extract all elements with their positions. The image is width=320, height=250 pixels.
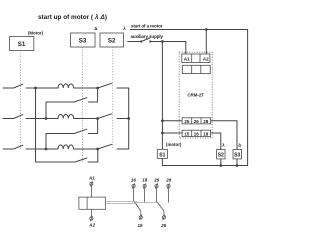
- wire L2 to star bus: [117, 118, 129, 120]
- wire S2 bottom stub: [220, 159, 222, 166]
- wire to terminal 15 row: [162, 132, 182, 134]
- node L1 input junction: [34, 87, 37, 90]
- wire A1 to coil: [90, 185, 92, 197]
- svg-text:15: 15: [137, 223, 143, 228]
- node L3 winding end: [96, 148, 99, 151]
- wire common 25: [163, 211, 165, 216]
- node star bus L2 junction: [127, 117, 130, 120]
- svg-text:28: 28: [203, 119, 209, 124]
- svg-text:25: 25: [184, 119, 190, 124]
- wire S3 bottom stub: [236, 159, 238, 166]
- wire L3 to coil: [26, 148, 58, 150]
- wire L2 to coil: [26, 118, 58, 120]
- svg-text:start of a motor: start of a motor: [131, 24, 163, 29]
- contactor box S2: [100, 33, 124, 47]
- switch blade S1 pole3: [14, 145, 23, 149]
- terminal 18: [143, 183, 146, 188]
- wire L1 to coil: [26, 87, 58, 89]
- motor winding coil 1: [58, 84, 74, 88]
- dashed linkage S1: [20, 51, 22, 150]
- svg-text:28: 28: [165, 178, 172, 183]
- svg-text:Δ: Δ: [94, 26, 97, 31]
- terminal 15: [139, 215, 142, 220]
- wire auxiliary supply line: [128, 41, 142, 43]
- svg-text:A1: A1: [88, 176, 95, 181]
- node S2 bus junction: [219, 164, 222, 167]
- svg-text:Δ: Δ: [238, 143, 241, 148]
- svg-text:18: 18: [203, 132, 209, 137]
- wire L3 to star bus: [117, 148, 129, 150]
- switch blade delta pole3: [75, 158, 87, 162]
- relay module CRM-2T dashed outline: [179, 52, 212, 138]
- node L2 bridge1 junction: [45, 117, 48, 120]
- svg-text:16: 16: [194, 132, 200, 137]
- svg-text:A2: A2: [203, 56, 209, 61]
- wire star bus: [128, 88, 130, 149]
- wire common 15: [140, 211, 142, 216]
- terminal 28: [167, 183, 170, 188]
- wire A2 drop: [205, 30, 207, 55]
- terminal 26: [155, 183, 158, 188]
- svg-text:A2: A2: [88, 223, 95, 228]
- motor winding coil 2: [58, 114, 74, 118]
- contactor box S1: [10, 37, 34, 51]
- svg-text:λ: λ: [222, 143, 225, 148]
- svg-text:A1: A1: [184, 56, 190, 61]
- mechanical linkage double line: [106, 202, 159, 204]
- wire bridge2 down to L3: [45, 134, 47, 150]
- svg-text:CRM-2T: CRM-2T: [187, 93, 204, 98]
- node L2 winding end: [96, 117, 99, 120]
- wire start-of-motor line: [130, 30, 247, 166]
- switch blade lambda pole2: [98, 114, 112, 119]
- node L3 bridge2 junction: [45, 148, 48, 151]
- svg-text:26: 26: [194, 119, 200, 124]
- svg-text:16: 16: [131, 178, 137, 183]
- node aux switch left contact: [140, 40, 142, 42]
- terminal A2: [90, 216, 93, 221]
- svg-text:(Motor): (Motor): [28, 31, 44, 36]
- wire L3 coil to node: [75, 148, 98, 150]
- wire from 28 down: [168, 188, 170, 203]
- switch blade S1 pole1: [14, 84, 23, 88]
- node A2 junction: [205, 28, 208, 31]
- wire bottom bus: [162, 158, 247, 165]
- wire bridge1 horizontal: [46, 101, 74, 103]
- wire bridge1 down to L2: [45, 102, 47, 119]
- motor winding coil 3: [58, 145, 74, 149]
- node aux switch right contact: [149, 40, 151, 42]
- switch blade S1 pole2: [14, 115, 23, 119]
- node aux junction: [161, 40, 164, 43]
- terminal A1: [90, 181, 93, 186]
- switch blade aux supply: [141, 38, 150, 42]
- wire L2 coil to node: [75, 118, 98, 120]
- node S3 bus junction: [236, 164, 239, 167]
- relay coil box: [79, 197, 106, 209]
- terminal row empty: [182, 65, 210, 73]
- contactor box S1 lower: [157, 149, 167, 158]
- terminal 25: [162, 215, 165, 220]
- svg-text:S3: S3: [234, 152, 240, 158]
- wire bridge3 to L3 node: [88, 149, 98, 162]
- wire phase L1 in: [3, 87, 14, 89]
- svg-text:S1: S1: [18, 41, 26, 48]
- terminal row 15 16 18: [182, 130, 211, 136]
- svg-text:S2: S2: [218, 152, 224, 158]
- wire delta feed from L1 node: [35, 88, 37, 162]
- node 15-row junction: [161, 132, 164, 135]
- wire 28 to S3: [211, 121, 237, 150]
- contactor box S3 lower: [233, 150, 242, 159]
- wire from 26 down: [156, 188, 158, 202]
- switch blade contact 25-26: [157, 201, 164, 211]
- wire to terminal 25 row: [162, 120, 182, 122]
- wire L1 to star bus: [117, 87, 129, 89]
- wire bridge1 to L1 node: [89, 88, 98, 102]
- svg-text:26: 26: [153, 178, 160, 183]
- switch blade lambda pole3: [98, 144, 112, 149]
- svg-text:25: 25: [160, 223, 167, 228]
- switch blade delta pole1: [74, 98, 87, 102]
- svg-text:auxiliary supply: auxiliary supply: [131, 34, 164, 39]
- svg-text:15: 15: [184, 132, 190, 137]
- wire from 18 down: [144, 188, 146, 203]
- svg-text:S1: S1: [159, 152, 165, 158]
- wire vertical aux feed to terminals: [161, 42, 163, 150]
- node L1 winding end: [96, 87, 99, 90]
- node 25-row junction: [161, 119, 164, 122]
- switch blade delta pole2: [74, 129, 87, 133]
- junction dots main circuit: [34, 87, 130, 151]
- terminal row 25 26 28: [182, 118, 211, 124]
- wire phase L3 in: [3, 148, 14, 150]
- dashed linkage S2: [112, 47, 114, 149]
- svg-text:(motor): (motor): [166, 142, 182, 147]
- terminal row A1 A2: [182, 54, 210, 62]
- wire 18 to S2: [211, 133, 221, 150]
- contactor box S3: [71, 33, 96, 47]
- wire L1 coil to node: [75, 87, 98, 89]
- junction dots top right: [140, 28, 238, 167]
- wire bridge2 to L2 node: [89, 119, 98, 134]
- svg-text:start up of motor ( λ Δ): start up of motor ( λ Δ): [38, 13, 107, 21]
- svg-text:λ: λ: [123, 26, 126, 31]
- wire phase L2 in: [3, 118, 14, 120]
- terminal 16: [132, 183, 135, 188]
- dashed linkage S3: [82, 47, 84, 162]
- svg-text:S2: S2: [108, 38, 116, 45]
- wire from 16 down: [133, 188, 135, 201]
- svg-text:18: 18: [142, 178, 148, 183]
- wire coil to A2: [90, 209, 92, 217]
- wire bridge2 horizontal: [46, 133, 74, 135]
- svg-text:S3: S3: [79, 38, 87, 45]
- contactor box S2 lower: [217, 150, 225, 159]
- wire bridge3 horizontal: [36, 161, 76, 163]
- switch blade contact 15-16: [134, 201, 141, 211]
- switch blade lambda pole1: [98, 83, 112, 88]
- wire aux continue to A1: [150, 42, 186, 55]
